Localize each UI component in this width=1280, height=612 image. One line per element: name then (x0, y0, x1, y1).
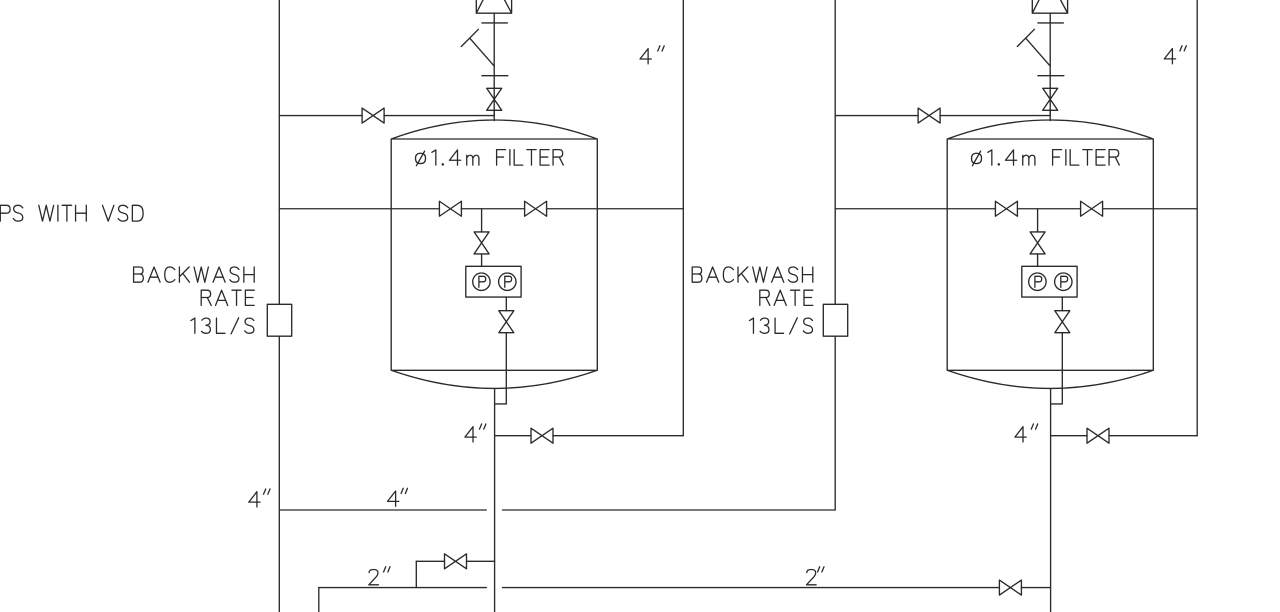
pump outlet valve left (499, 311, 514, 333)
union tick lower left (482, 75, 508, 77)
label: RATE left (201, 290, 254, 305)
pump P1 left (473, 273, 490, 290)
end-cap tick on vent branch right (1017, 29, 1034, 46)
45-deg vent branch left (470, 39, 494, 67)
pump P2 right (1055, 273, 1072, 290)
wire: 4in backwash return line (279, 509, 486, 511)
pipe: vessel drain down right (1050, 389, 1052, 612)
pipe: supply header right (lower) (834, 336, 836, 510)
wire: drop to pump inlet valve right (1037, 209, 1039, 232)
label: 2in (left) (369, 567, 390, 585)
manifold valve B left (525, 201, 547, 216)
4in branch valve left (531, 428, 553, 443)
wire: manifold from header left (279, 208, 439, 210)
pipe: vessel drain down left (494, 389, 496, 612)
vent valve left (487, 88, 502, 110)
manifold valve A right (995, 201, 1017, 216)
pipe: outer return line left (682, 0, 684, 436)
wire: bypass riser (415, 561, 417, 587)
wire: bypass into left drain (467, 560, 495, 562)
wire: vent pipe left (493, 13, 495, 115)
wire: pump box to outlet valve right (1061, 297, 1063, 311)
label: BACKWASH left (134, 267, 255, 282)
manifold valve B right (1081, 201, 1103, 216)
wire: pump discharge tie-in left (495, 403, 507, 405)
wire: inlet from header left (279, 115, 362, 117)
label: RATE right (760, 290, 813, 305)
air-release vent assembly left (476, 0, 511, 13)
wire: 2in drain line (319, 587, 487, 589)
duty/standby pump box right (1022, 266, 1077, 297)
wire: 4in branch to wrap line right (1109, 435, 1197, 437)
pump inlet valve right (1030, 232, 1045, 254)
wire: manifold to wrap line right (1103, 208, 1198, 210)
manifold valve A left (439, 201, 461, 216)
pipe: supply header left (lower) (278, 336, 280, 612)
inlet isolation valve left (362, 108, 384, 123)
pump P2 left (499, 273, 516, 290)
wire: pump discharge tie-in right (1051, 403, 1063, 405)
wire: 4in branch from drain right (1051, 435, 1087, 437)
label: 4in (right return) (1164, 46, 1186, 64)
bypass valve (445, 554, 467, 569)
pump outlet valve right (1055, 311, 1070, 333)
wire: vent pipe right (1049, 13, 1051, 115)
wire: valve to pump box right (1037, 254, 1039, 266)
pipe: supply header left (upper) (278, 0, 280, 304)
label: 4in (left branch) (465, 424, 486, 442)
wire: inlet to vent pipe right (940, 115, 1050, 117)
wire: manifold from header right (835, 208, 995, 210)
label: 13L/S right (750, 318, 813, 334)
pipe: 2in line turn-down (318, 588, 320, 612)
wire: 4in branch to wrap line left (553, 435, 683, 437)
45-deg vent branch right (1026, 39, 1050, 67)
wire: bypass horizontal (416, 560, 444, 562)
label: 4in (header) (249, 489, 270, 507)
label: BACKWASH right (692, 267, 813, 282)
label: diameter left (416, 150, 479, 166)
label: 2in (right) (807, 567, 825, 585)
wire: 4in branch from drain left (495, 435, 531, 437)
union tick upper left (482, 22, 508, 24)
backwash flow element left (267, 304, 291, 336)
pump inlet valve left (474, 232, 489, 254)
label: PS WITH VSD (0, 205, 22, 221)
filter vessel right (947, 120, 1153, 388)
wire: pump discharge down right (1061, 333, 1063, 404)
vent valve right (1043, 88, 1058, 110)
wire: 2in line into right drain (1021, 587, 1050, 589)
label: 4in (right branch) (1015, 424, 1038, 442)
2in line valve right (999, 580, 1021, 595)
union tick lower right (1038, 75, 1064, 77)
label: 4in (return line) (388, 488, 408, 506)
end-cap tick on vent branch left (461, 29, 478, 46)
inlet isolation valve right (918, 108, 940, 123)
filter vessel left (391, 120, 597, 388)
wire: inlet from header right (835, 115, 918, 117)
wire: vent valve to dome left (493, 110, 495, 120)
backwash flow element right (823, 304, 847, 336)
pipe: supply header right (upper) (834, 0, 836, 304)
4in branch valve right (1087, 428, 1109, 443)
wire: pump discharge down left (505, 333, 507, 404)
wire: manifold mid left (461, 208, 524, 210)
wire: pump box to outlet valve left (505, 297, 507, 311)
wire: valve to pump box left (481, 254, 483, 266)
label: diameter right (972, 150, 1035, 166)
wire: manifold to wrap line left (547, 208, 684, 210)
wire: inlet to vent pipe left (384, 115, 494, 117)
label: 4in (left return) (640, 46, 664, 64)
wire: drop to pump inlet valve left (481, 209, 483, 232)
union tick upper right (1038, 22, 1064, 24)
wire: vent valve to dome right (1049, 110, 1051, 120)
duty/standby pump box left (466, 266, 521, 297)
wire: manifold mid right (1017, 208, 1080, 210)
pump P1 right (1029, 273, 1046, 290)
pipe: outer return line right (1196, 0, 1198, 436)
air-release vent assembly right (1032, 0, 1067, 13)
label: 13L/S left (191, 318, 254, 334)
